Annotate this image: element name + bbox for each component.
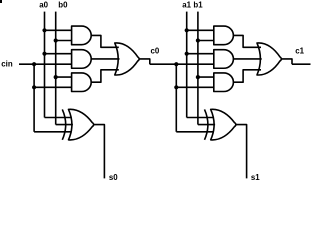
svg-text:a0: a0 (39, 0, 48, 9)
svg-text:b1: b1 (193, 0, 203, 9)
svg-text:c1: c1 (295, 47, 304, 56)
svg-text:s1: s1 (251, 173, 260, 182)
svg-text:c0: c0 (151, 47, 160, 56)
svg-text:b0: b0 (58, 0, 68, 9)
svg-text:cin: cin (1, 59, 13, 68)
svg-text:s0: s0 (109, 173, 118, 182)
svg-text:a1: a1 (182, 0, 191, 9)
